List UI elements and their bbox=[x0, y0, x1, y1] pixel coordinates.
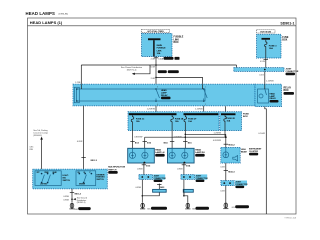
fuse 2B bbox=[171, 115, 184, 130]
bus bar in fuse box bbox=[262, 38, 271, 40]
ground G14 bbox=[223, 203, 249, 209]
svg-text:0.5B: 0.5B bbox=[220, 167, 225, 169]
fusible link symbol bbox=[148, 38, 166, 56]
cluster ground wire bbox=[220, 163, 235, 181]
svg-text:OFF: OFF bbox=[37, 172, 40, 174]
svg-text:M33-2: M33-2 bbox=[228, 145, 235, 147]
svg-text:3: 3 bbox=[157, 87, 158, 89]
svg-text:HL: HL bbox=[84, 172, 86, 174]
svg-text:BOX: BOX bbox=[282, 40, 287, 42]
fuse box (top right) bbox=[257, 34, 289, 58]
svg-text:SWITCH: SWITCH bbox=[96, 179, 104, 181]
svg-text:M01-2: M01-2 bbox=[75, 194, 82, 196]
svg-text:LAMP LH: LAMP LH bbox=[155, 151, 165, 154]
wire fuse2B to head lamp RH low bbox=[164, 131, 182, 149]
svg-text:4: 4 bbox=[157, 104, 158, 106]
LH lower ground run bbox=[135, 179, 165, 202]
svg-text:BOX: BOX bbox=[174, 42, 179, 44]
svg-text:HU: HU bbox=[78, 172, 80, 174]
svg-text:HEAD LAMPS (1): HEAD LAMPS (1) bbox=[30, 20, 63, 25]
svg-text:HEAD: HEAD bbox=[195, 149, 201, 152]
fuse 2F bbox=[184, 115, 197, 130]
svg-text:RELAY: RELAY bbox=[161, 94, 168, 97]
svg-text:RELAY: RELAY bbox=[284, 86, 292, 89]
dimmer passing label bbox=[96, 174, 105, 181]
head lamp RH ground wire bbox=[177, 163, 191, 175]
svg-text:0.85B: 0.85B bbox=[137, 168, 143, 170]
svg-text:FUSIBLE: FUSIBLE bbox=[174, 37, 184, 39]
wire main feed from fusible link bbox=[151, 57, 180, 85]
svg-text:(SD971-1): (SD971-1) bbox=[127, 70, 137, 72]
band internal bus rectangle bbox=[77, 89, 206, 101]
svg-text:DIMMER: DIMMER bbox=[79, 184, 86, 186]
svg-text:HOT IN ON: HOT IN ON bbox=[260, 31, 271, 33]
svg-text:LAMP RH: LAMP RH bbox=[195, 151, 205, 154]
joint connector cluster bbox=[221, 181, 248, 189]
svg-text:BOX: BOX bbox=[284, 90, 289, 92]
see power distribution note bbox=[121, 65, 150, 75]
svg-text:0.85R: 0.85R bbox=[77, 141, 83, 143]
svg-text:0.5G/R: 0.5G/R bbox=[258, 133, 265, 135]
svg-text:M33-3: M33-3 bbox=[228, 171, 235, 173]
instrument cluster box bbox=[221, 147, 262, 163]
band1 exit wires to fuse band bbox=[147, 106, 226, 114]
svg-text:0.85R/W: 0.85R/W bbox=[213, 140, 221, 142]
hot in on label box (top right) bbox=[257, 30, 276, 34]
svg-text:HEAD LAMPS: HEAD LAMPS bbox=[26, 11, 55, 16]
svg-text:1.25R/B: 1.25R/B bbox=[195, 109, 203, 111]
ground G06 bbox=[185, 203, 209, 211]
dimmer passing switch sub-box bbox=[76, 171, 96, 186]
svg-text:0.85R/W: 0.85R/W bbox=[134, 136, 142, 138]
svg-text:LINK: LINK bbox=[157, 50, 162, 52]
svg-text:10A: 10A bbox=[136, 120, 140, 123]
wire band1 to lighting switch bbox=[77, 106, 98, 169]
svg-text:0.85B: 0.85B bbox=[63, 199, 69, 201]
svg-text:0.85B: 0.85B bbox=[63, 196, 69, 198]
svg-text:FUSIBLE: FUSIBLE bbox=[157, 48, 167, 50]
svg-text:1.25R/W: 1.25R/W bbox=[147, 109, 155, 111]
wire branch to relay 2 at y77.4 bbox=[155, 77, 202, 85]
fuse band (band2) bbox=[128, 112, 219, 131]
wire from joint connector to relay box bbox=[259, 71, 274, 84]
lighting switch sub-box bbox=[35, 171, 61, 186]
svg-text:FUSE: FUSE bbox=[282, 37, 289, 39]
fusible link box (top middle) bbox=[142, 34, 184, 57]
svg-text:RELAY: RELAY bbox=[270, 97, 277, 100]
junction block band E/C bbox=[73, 84, 255, 106]
svg-text:FUSE 3: FUSE 3 bbox=[269, 45, 277, 47]
wire fuse2F to head lamp high beams bbox=[143, 131, 226, 149]
svg-text:1.25B: 1.25B bbox=[75, 82, 81, 84]
svg-text:0.85B: 0.85B bbox=[135, 187, 141, 189]
svg-text:1.25R/B: 1.25R/B bbox=[266, 80, 274, 82]
see tail parking note (left) bbox=[30, 129, 48, 169]
svg-text:2.0R: 2.0R bbox=[151, 78, 156, 80]
svg-text:CLUSTER: CLUSTER bbox=[249, 151, 259, 153]
head lamp LH box bbox=[128, 148, 165, 163]
head lamp RH box bbox=[168, 148, 206, 163]
svg-text:10A: 10A bbox=[269, 47, 273, 50]
head lamp LH exit pin bbox=[143, 162, 145, 164]
hot at all times label box bbox=[142, 29, 170, 33]
svg-text:MAIN: MAIN bbox=[157, 44, 163, 47]
wire fuse2E to instrument cluster bbox=[213, 131, 235, 148]
relay box exit long wire to bottom bbox=[258, 107, 266, 215]
svg-text:LINK: LINK bbox=[174, 39, 180, 41]
wire branch to left and right at y65 bbox=[75, 64, 236, 84]
joint connector strip (upper right) bbox=[234, 68, 299, 76]
svg-text:0.5W: 0.5W bbox=[260, 61, 265, 63]
band left terminal box bbox=[74, 84, 81, 103]
head lamp relay 1 bbox=[155, 87, 170, 106]
svg-text:FUSE: FUSE bbox=[243, 113, 249, 115]
svg-text:LIGHTING: LIGHTING bbox=[40, 184, 48, 186]
svg-text:2.0R: 2.0R bbox=[151, 59, 156, 61]
svg-text:(SD906-1): (SD906-1) bbox=[33, 135, 42, 137]
cluster wire to ground bbox=[220, 186, 225, 203]
svg-text:HOT AT ALL TIMES: HOT AT ALL TIMES bbox=[147, 30, 164, 33]
svg-text:10A: 10A bbox=[227, 120, 231, 123]
wire from fuse box down bbox=[260, 58, 268, 68]
head lamp relay 2 bbox=[203, 84, 208, 106]
svg-text:SWITCH: SWITCH bbox=[63, 180, 71, 182]
ground G01 bbox=[69, 203, 90, 211]
head lamp RH exit pin bbox=[183, 162, 185, 164]
multifunction switch box bbox=[33, 167, 126, 189]
ground G05 bbox=[140, 203, 167, 211]
lighting switch label bbox=[63, 175, 71, 182]
svg-text:1.25R/B: 1.25R/B bbox=[213, 133, 221, 135]
svg-text:0.85B: 0.85B bbox=[177, 168, 183, 170]
fuse 3 symbol bbox=[265, 40, 278, 58]
svg-text:SD901-1: SD901-1 bbox=[280, 21, 294, 25]
wire fuse2C to head lamp LH low bbox=[130, 131, 142, 149]
relay in relay box bbox=[258, 84, 279, 103]
svg-text:See Power Distribution: See Power Distribution bbox=[121, 66, 143, 69]
joint connector LH bbox=[139, 174, 166, 182]
switch ground wire bbox=[63, 189, 87, 204]
svg-text:0.5R: 0.5R bbox=[151, 66, 156, 68]
svg-text:BOX: BOX bbox=[243, 116, 248, 118]
svg-text:BEAM: BEAM bbox=[241, 150, 247, 153]
head lamp LH ground wire bbox=[137, 163, 151, 175]
svg-text:0.5B: 0.5B bbox=[220, 191, 225, 193]
svg-text:30A: 30A bbox=[157, 52, 161, 55]
joint connector RH bbox=[181, 174, 208, 182]
svg-text:P: P bbox=[90, 172, 91, 174]
svg-text:0.5G: 0.5G bbox=[259, 75, 264, 77]
svg-text:10A: 10A bbox=[188, 120, 192, 123]
fuse 2C bbox=[131, 115, 145, 130]
svg-text:C10A: C10A bbox=[158, 57, 164, 60]
outer border frame bbox=[28, 18, 297, 214]
svg-text:(1995-96): (1995-96) bbox=[59, 14, 69, 16]
fuse box 2 (right small) bbox=[220, 112, 250, 131]
svg-text:M01-3: M01-3 bbox=[91, 160, 98, 162]
svg-text:HEAD: HEAD bbox=[155, 149, 161, 152]
svg-text:10A: 10A bbox=[175, 120, 179, 123]
svg-text:(SD901-3): (SD901-3) bbox=[77, 202, 86, 204]
RH lower ground run bbox=[183, 179, 193, 202]
band2 bus bar bbox=[129, 113, 219, 115]
relay box (right) bbox=[255, 84, 294, 106]
svg-text:97HE42-10A: 97HE42-10A bbox=[285, 217, 297, 220]
title HEAD LAMPS bbox=[26, 11, 69, 16]
cyan ref pill left bbox=[153, 189, 167, 192]
